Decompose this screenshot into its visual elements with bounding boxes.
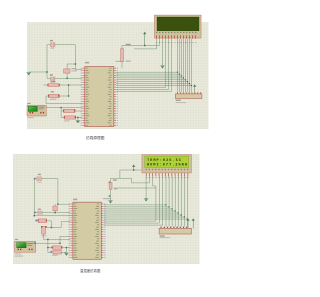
label C1 (fig2)	[38, 174, 41, 175]
junction	[68, 95, 69, 96]
junction	[189, 83, 190, 84]
wire	[34, 212, 38, 214]
label C2 (fig2)	[38, 209, 41, 210]
LCD1 pin number text	[156, 42, 196, 43]
wire VSS (fig2)	[145, 176, 147, 198]
U1 pin stubs (fig2)	[71, 204, 73, 258]
wire	[153, 185, 156, 187]
resistor pack RP1 pin marks (fig2)	[161, 227, 188, 229]
capacitor C2	[51, 77, 55, 81]
junction	[60, 107, 61, 108]
op-amp U1 microcontroller AT89C51	[85, 67, 114, 127]
wire D6	[189, 39, 191, 92]
wire D3	[183, 39, 185, 92]
junction	[179, 74, 180, 75]
wire D7	[191, 39, 193, 92]
junction	[172, 208, 173, 209]
wire to VDD (fig2)	[131, 182, 149, 184]
wire XTAL2 (fig2)	[42, 212, 70, 214]
wire to MCU (fig2)	[60, 235, 70, 237]
wire	[155, 186, 157, 188]
wire to XTAL1 pin	[75, 69, 82, 71]
junction	[66, 247, 67, 248]
junction	[57, 204, 58, 205]
junction	[191, 85, 192, 86]
wire crystal top	[66, 64, 68, 69]
label RESPACK-8 (fig2)	[160, 237, 171, 238]
junction	[187, 218, 188, 219]
value 22uF	[50, 99, 56, 100]
label U2 (fig2)	[15, 239, 18, 240]
junction	[175, 210, 176, 211]
wire up (fig2)	[59, 236, 61, 243]
wire to P1 pin	[46, 103, 82, 105]
junction	[177, 72, 178, 73]
power +5V (fig2)	[132, 164, 135, 170]
value 30pF	[51, 47, 55, 48]
wire C3 left stub	[46, 95, 49, 97]
wire to P3 pin (fig2)	[44, 238, 71, 240]
wire R1 top stub (fig2)	[110, 178, 112, 182]
wire C1 right (fig2)	[41, 178, 58, 180]
wire bus data line 1 (fig2)	[104, 206, 169, 208]
value 4k7	[126, 61, 131, 62]
sensor U2 DHT11	[27, 105, 46, 116]
wire RST node vertical	[68, 85, 70, 96]
wire LCD control 2 (fig2)	[162, 176, 164, 225]
wire C3 bottom (fig2)	[43, 234, 45, 239]
ground (sensor)	[76, 120, 80, 123]
wire R4 to MCU	[76, 116, 82, 118]
wire LCD control 0	[165, 39, 167, 87]
wire bus data line 0 (fig2)	[104, 204, 166, 206]
wire R3 to MCU (fig2)	[63, 247, 71, 249]
wire crystal top (fig2)	[54, 204, 56, 206]
wire bus data line 7	[116, 85, 191, 87]
value text (fig2)	[52, 255, 58, 256]
wire D2	[181, 39, 183, 92]
LCD2 pins	[146, 173, 188, 176]
junction	[181, 214, 182, 215]
resistor pack RP1	[175, 94, 202, 99]
junction	[47, 247, 48, 248]
svg-text:TEMP:026.5C: TEMP:026.5C	[147, 159, 182, 163]
wire RST vertical (fig2)	[60, 222, 62, 228]
resistor R1	[121, 49, 124, 62]
wire LCD control 1	[168, 39, 170, 89]
ground (LCD fig2)	[144, 199, 148, 202]
LCD2 pin number text	[146, 177, 189, 178]
wire R3 to MCU	[75, 110, 82, 112]
svg-text:温湿度仿真图: 温湿度仿真图	[80, 268, 101, 273]
resistor R2 (fig2)	[35, 220, 37, 222]
resistor R3 (fig2)	[53, 246, 62, 250]
wire data to RS (fig2)	[114, 187, 156, 189]
label RP1 (fig2)	[160, 235, 165, 236]
capacitor C1 (fig2)	[34, 178, 36, 180]
label DHT11	[27, 117, 34, 118]
resistor pack RP1 pin marks	[177, 92, 201, 94]
wire bus data line 7 (fig2)	[104, 218, 188, 220]
wire bus data line 4 (fig2)	[104, 212, 178, 214]
wire bus data line 3	[116, 77, 183, 79]
junction	[181, 75, 182, 76]
wire D0	[177, 39, 179, 92]
wire	[48, 247, 52, 249]
wire bus data line 2	[116, 75, 181, 77]
sensor U2 DHT11 (fig2)	[15, 241, 36, 252]
power +5V (LCD)	[143, 32, 146, 46]
label R1	[126, 44, 131, 45]
wire	[34, 178, 37, 180]
wire VSS horizontal	[134, 48, 157, 50]
label AT89C52 (fig2)	[103, 198, 111, 199]
wire EA (fig2)	[34, 215, 70, 217]
wire D0 (fig2)	[165, 176, 167, 226]
resistor R1 (fig2)	[109, 182, 111, 184]
resistor R2	[48, 84, 59, 87]
wire DHT11 data to MCU	[46, 107, 82, 109]
wire VDD (fig2)	[148, 176, 150, 183]
wire R1 top (fig2)	[111, 177, 132, 179]
capacitor C3	[49, 94, 60, 97]
wire down to XTAL1 (fig2)	[57, 179, 59, 205]
resistor R4 (fig2)	[50, 251, 52, 253]
wire bus control line 0 (fig2)	[104, 220, 156, 222]
crystal X1	[64, 69, 70, 73]
label RP1	[176, 100, 181, 101]
wire bus data line 6	[116, 83, 189, 85]
wire D3 (fig2)	[174, 176, 176, 226]
label R1 (fig2)	[113, 180, 117, 181]
ground (LCD contrast)	[160, 66, 164, 69]
wire D2 (fig2)	[171, 176, 173, 226]
wire R2 right (fig2)	[47, 220, 51, 222]
label DHT11 (fig2)	[15, 253, 22, 254]
sensor readout text	[39, 107, 45, 108]
wire	[47, 44, 51, 46]
label R2	[51, 81, 56, 82]
wire bus control line 0	[116, 86, 165, 88]
wire XTAL2 net	[55, 77, 83, 79]
wire LCD control 0 (fig2)	[155, 188, 157, 221]
label C3	[51, 91, 54, 92]
value 4k7 (fig2)	[114, 188, 117, 189]
power +5V b (fig2)	[192, 218, 195, 228]
wire C3 to RST node	[59, 95, 68, 97]
wire bus data line 3 (fig2)	[104, 210, 175, 212]
junction	[168, 206, 169, 207]
junction	[178, 212, 179, 213]
sensor buttons	[30, 112, 31, 114]
power +5V (RP1)	[193, 84, 196, 94]
junction	[183, 77, 184, 78]
resistor R4	[64, 116, 75, 119]
junction	[187, 81, 188, 82]
wire D5	[187, 39, 189, 92]
wire to RST pin	[69, 84, 83, 86]
wire	[47, 77, 51, 79]
wire vertical	[60, 108, 62, 118]
wire D1	[179, 39, 181, 92]
junction	[46, 71, 47, 72]
capacitor C1	[51, 43, 55, 47]
junction	[75, 63, 76, 64]
junction	[68, 84, 69, 85]
wire bus data line 4	[116, 79, 185, 81]
wire LCD control 1 (fig2)	[158, 176, 160, 223]
value 12MHz	[72, 70, 78, 71]
crystal X1 (fig2)	[53, 206, 58, 211]
wire VDD	[159, 39, 161, 46]
junction	[47, 239, 48, 240]
wire VCC rail (fig2)	[120, 169, 142, 171]
label RESPACK-8	[176, 102, 187, 103]
junction	[77, 117, 78, 118]
wire crystal top to node	[67, 63, 75, 65]
wire DHT data (fig2)	[36, 242, 60, 244]
svg-text:HUMI:077.2%RH: HUMI:077.2%RH	[147, 164, 187, 168]
LCD LCD1 LM016L (fig2)	[142, 155, 191, 173]
junction	[34, 215, 35, 216]
schematic screenshot 1 background	[27, 22, 209, 129]
value C3 (fig2)	[41, 235, 46, 236]
LCD1 pin label text	[156, 32, 196, 33]
wire D7 (fig2)	[186, 176, 188, 226]
wire bus data line 0	[116, 71, 177, 73]
value text	[64, 120, 70, 121]
wire bus control line 1	[116, 88, 168, 90]
wire R2 left stub	[44, 84, 48, 86]
wire	[61, 110, 64, 112]
junction	[59, 243, 60, 244]
wire VEE (fig2)	[152, 176, 154, 186]
capacitor C3 (fig2)	[42, 226, 46, 234]
wire bus control line 1 (fig2)	[104, 222, 160, 224]
wire D6 (fig2)	[183, 176, 185, 226]
wire LCD control 2	[171, 39, 173, 91]
label C1	[50, 40, 53, 41]
label X1	[72, 68, 76, 69]
wire crystal bottom (fig2)	[54, 211, 56, 213]
wire ground tap	[29, 71, 47, 73]
wire down (fig2)	[119, 170, 121, 178]
wire VEE down	[162, 39, 164, 66]
LCD1 pins	[156, 35, 196, 39]
junction	[54, 212, 55, 213]
wire D5 (fig2)	[180, 176, 182, 226]
wire D4	[185, 39, 187, 92]
svg-text:仿真原理图: 仿真原理图	[86, 135, 105, 140]
wire	[61, 251, 66, 253]
wire R1 bottom	[121, 62, 123, 69]
capacitor C2 (fig2)	[34, 212, 36, 214]
wire bus data line 6 (fig2)	[104, 216, 185, 218]
wire bus data line 5 (fig2)	[104, 214, 182, 216]
power +5V a (fig2)	[186, 218, 189, 228]
wire R2 to RST node	[59, 84, 68, 86]
wire D1 (fig2)	[168, 176, 170, 226]
junction	[165, 204, 166, 205]
wire R1 bottom (fig2)	[110, 189, 112, 200]
wire bus control line 2 (fig2)	[104, 224, 163, 226]
label U1	[85, 62, 89, 64]
LCD LCD1 LM016L	[155, 15, 202, 38]
wire vertical to XTAL1	[74, 45, 76, 70]
wire bus data line 1	[116, 73, 179, 75]
sensor buttons (fig2)	[18, 249, 19, 251]
wire R1 top stub	[121, 46, 123, 49]
junction	[185, 79, 186, 80]
value 30pF (fig2)	[38, 182, 42, 183]
label AT89C51	[116, 61, 124, 62]
wire XTAL1 (fig2)	[58, 203, 71, 205]
wire bus data line 2 (fig2)	[104, 208, 172, 210]
label U1 (fig2)	[73, 199, 77, 201]
label C2	[50, 74, 53, 75]
wire	[48, 251, 51, 253]
wire to ground (fig2)	[65, 248, 67, 253]
U1 pin stubs and pin numbers	[82, 68, 84, 126]
wire C3 top to RST (fig2)	[46, 227, 62, 229]
junction	[133, 169, 134, 170]
wire to RST pin (fig2)	[61, 221, 70, 223]
LCD2 pin label text	[145, 169, 188, 170]
wire bus data line 5	[116, 81, 187, 83]
resistor R3	[64, 109, 75, 112]
op-amp U1 microcontroller AT89C51 (fig2)	[73, 202, 101, 259]
junction	[144, 45, 145, 46]
wire	[61, 116, 64, 118]
wire left rail (fig2)	[33, 179, 35, 216]
wire VCC rail to VDD	[122, 45, 160, 47]
ground (R1 fig2)	[108, 201, 112, 204]
wire D4 (fig2)	[177, 176, 179, 226]
junction	[184, 216, 185, 217]
wire bus control line 2	[116, 90, 171, 92]
wire jog (fig2)	[130, 178, 132, 183]
schematic screenshot 2 background	[13, 154, 200, 264]
wire to ground	[77, 117, 79, 120]
wire left rail cluster (fig2)	[47, 239, 49, 252]
sensor readout (fig2)	[27, 243, 33, 244]
ground (sensor fig2)	[64, 253, 68, 256]
label U2	[27, 103, 30, 104]
wire down (fig2)	[50, 221, 52, 228]
wire down	[45, 96, 47, 104]
wire C1 to XTAL1 node	[55, 44, 76, 46]
wire crystal bottom	[66, 73, 68, 78]
resistor pack RP1 (fig2)	[159, 228, 191, 234]
wire left rail	[46, 45, 48, 79]
ground (oscillator)	[27, 73, 31, 76]
junction	[51, 227, 52, 228]
wire VSS	[156, 39, 158, 49]
junction	[66, 78, 67, 79]
